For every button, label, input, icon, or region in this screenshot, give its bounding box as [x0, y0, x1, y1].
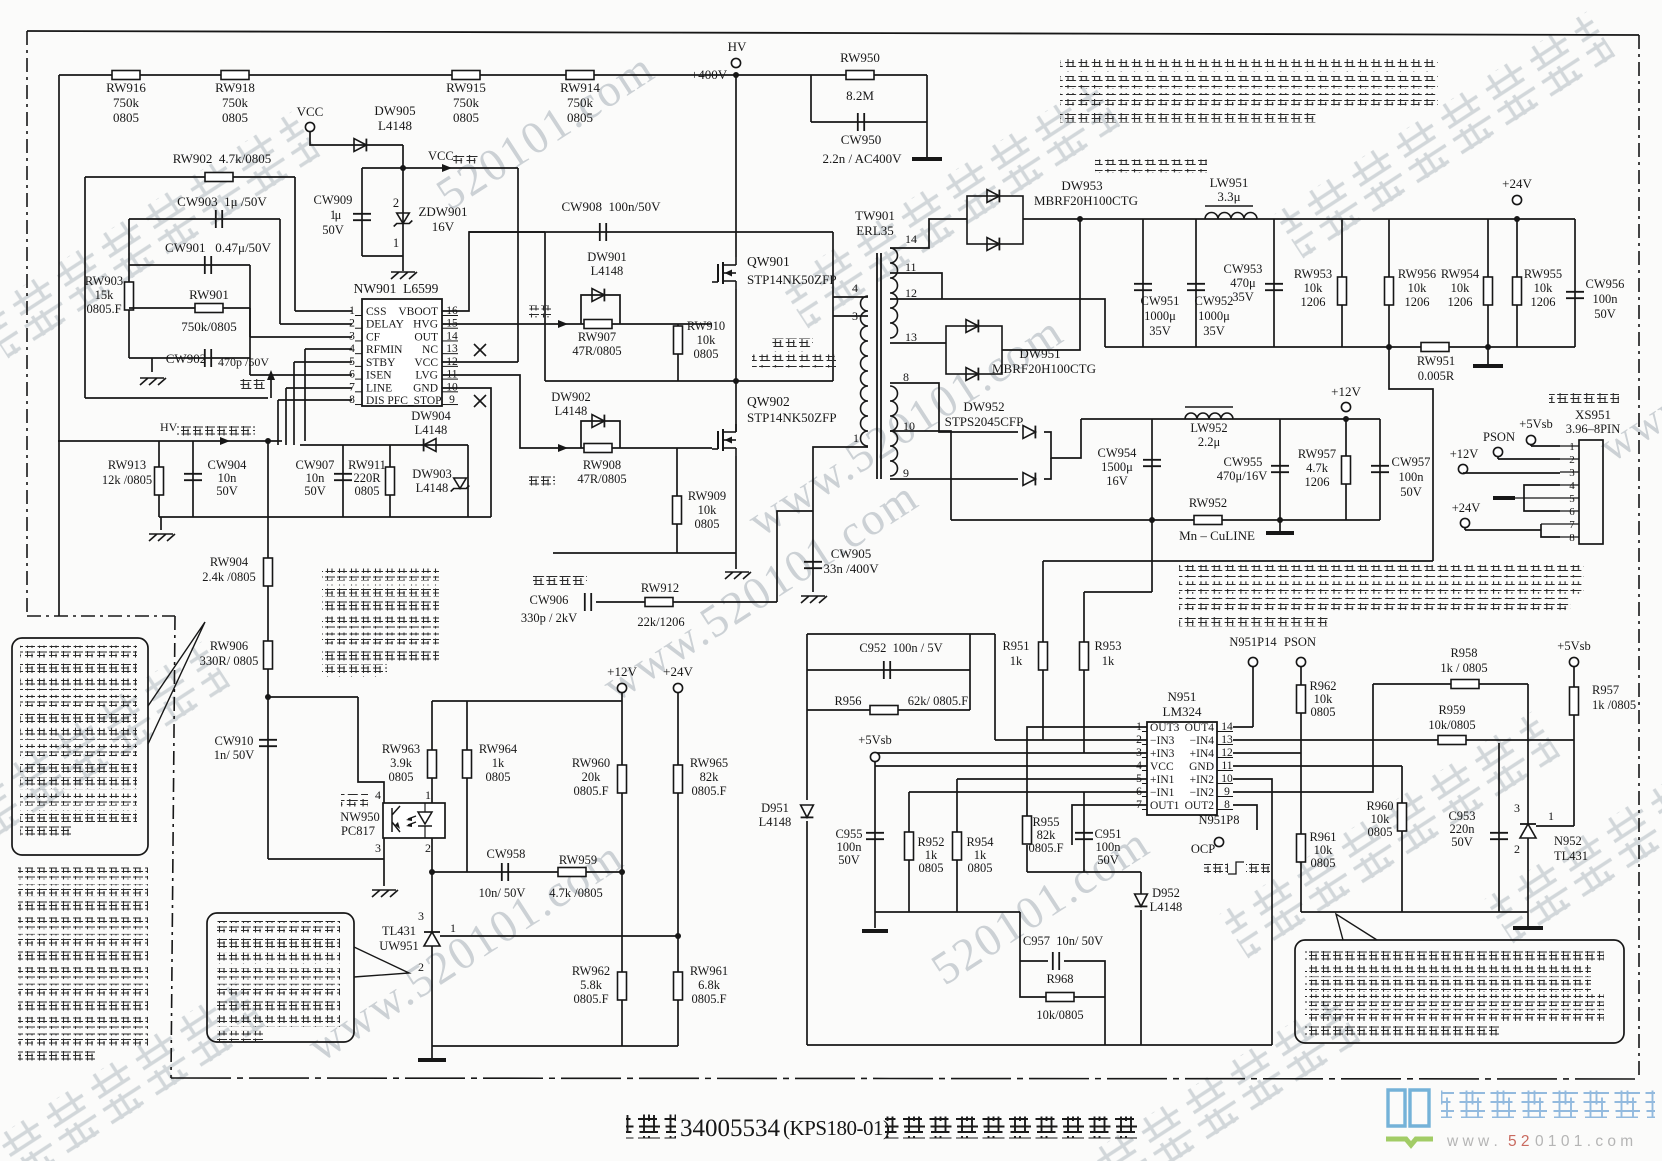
- svg-text:3: 3: [1569, 467, 1575, 479]
- svg-text:RW902 4.7k/0805: RW902 4.7k/0805: [173, 151, 272, 166]
- wire pin6: [250, 374, 352, 376]
- svg-text:9: 9: [903, 466, 909, 480]
- resistor RW952 shunt: [1194, 516, 1222, 525]
- svg-text:7: 7: [1569, 519, 1575, 531]
- diode DW901: [581, 295, 620, 324]
- svg-text:35V: 35V: [1149, 324, 1171, 338]
- primary coil: [861, 296, 869, 446]
- svg-text:3: 3: [418, 909, 424, 923]
- svg-text:RW915: RW915: [446, 80, 486, 95]
- svg-text:10k/0805: 10k/0805: [1428, 718, 1475, 732]
- ground: [725, 572, 751, 579]
- wires pins 4-6: [1524, 485, 1560, 511]
- wire R951/R953: [1042, 561, 1044, 740]
- svg-text:RW904: RW904: [210, 555, 249, 569]
- svg-text:GND: GND: [1189, 761, 1214, 773]
- ground: [418, 1058, 446, 1062]
- pin 8: [1560, 536, 1579, 538]
- ground: [151, 358, 153, 372]
- svg-text:+5Vsb: +5Vsb: [1519, 417, 1552, 431]
- resistor R953: [1080, 642, 1089, 670]
- resistor RW953: [1341, 219, 1343, 347]
- svg-text:DW951: DW951: [1019, 346, 1060, 361]
- resistor RW909: [676, 448, 678, 553]
- svg-text:RW914: RW914: [560, 80, 600, 95]
- wire sense: [1043, 560, 1433, 562]
- svg-text:4: 4: [375, 788, 381, 802]
- border frame: [27, 31, 1639, 35]
- svg-text:+24V: +24V: [1452, 501, 1481, 515]
- svg-text:RW952: RW952: [1189, 496, 1227, 510]
- svg-text:R960: R960: [1366, 799, 1393, 813]
- svg-text:RW963: RW963: [382, 742, 420, 756]
- secondary bottom: [890, 386, 898, 476]
- svg-text:(KPS180-01): (KPS180-01): [783, 1116, 890, 1140]
- wire +12 return rail: [951, 519, 1380, 521]
- svg-text:NW901 L6599: NW901 L6599: [354, 281, 439, 296]
- svg-text:RW909: RW909: [688, 489, 726, 503]
- wire gnd rail: [1105, 346, 1421, 348]
- svg-text:RW918: RW918: [215, 80, 255, 95]
- svg-text:NC: NC: [422, 344, 438, 356]
- svg-text:RW950: RW950: [840, 50, 880, 65]
- svg-text:10k: 10k: [698, 503, 718, 517]
- resistor R961: [1300, 753, 1302, 912]
- svg-text:3: 3: [375, 841, 381, 855]
- svg-text:0805: 0805: [113, 110, 139, 125]
- svg-text:2: 2: [1514, 842, 1520, 856]
- svg-text:R954: R954: [966, 835, 994, 849]
- resistor RW956: [1388, 219, 1390, 347]
- svg-text:750k: 750k: [113, 95, 140, 110]
- node HV: [731, 58, 740, 67]
- svg-text:1k: 1k: [1010, 654, 1023, 668]
- diode DW952: [890, 383, 1018, 432]
- svg-text:0805: 0805: [355, 484, 380, 498]
- diode D952: [1084, 871, 1141, 873]
- svg-text:0805.F: 0805.F: [691, 784, 726, 798]
- svg-text:TL431: TL431: [382, 924, 416, 938]
- svg-text:NW950: NW950: [340, 810, 380, 824]
- note N951: [1179, 565, 1584, 578]
- svg-text:CW956: CW956: [1586, 277, 1625, 291]
- svg-text:5: 5: [1569, 493, 1575, 505]
- wire pin9 R958: [1233, 684, 1373, 792]
- svg-text:RW960: RW960: [572, 756, 610, 770]
- svg-text:CW910: CW910: [215, 734, 254, 748]
- TL431 N952: [1520, 824, 1536, 838]
- wire pin8: [278, 399, 352, 401]
- svg-text:35V: 35V: [1232, 290, 1254, 304]
- svg-text:1k: 1k: [492, 756, 505, 770]
- svg-text:1206: 1206: [1301, 295, 1326, 309]
- svg-text:20k: 20k: [582, 770, 602, 784]
- svg-text:1206: 1206: [1531, 295, 1556, 309]
- svg-text:220n: 220n: [1450, 822, 1476, 836]
- svg-text:5.8k: 5.8k: [580, 978, 603, 992]
- pin 5: [1560, 497, 1579, 499]
- svg-text:RW911: RW911: [348, 458, 386, 472]
- svg-text:R952: R952: [917, 835, 944, 849]
- svg-text:CW957: CW957: [1392, 455, 1431, 469]
- svg-text:2: 2: [393, 196, 399, 210]
- svg-text:RW964: RW964: [479, 742, 518, 756]
- svg-text:10k: 10k: [1314, 843, 1334, 857]
- svg-text:10k: 10k: [1408, 281, 1428, 295]
- svg-text:w w w .: w w w .: [1446, 1133, 1498, 1150]
- wire +12 rail: [1081, 418, 1380, 420]
- svg-text:−IN3: −IN3: [1150, 735, 1175, 747]
- resistor RW950: [846, 71, 874, 80]
- svg-text:35V: 35V: [1203, 324, 1225, 338]
- svg-text:11: 11: [905, 260, 917, 274]
- svg-text:15k: 15k: [95, 288, 115, 302]
- capacitor CW954: [1151, 419, 1153, 520]
- svg-text:CW951: CW951: [1141, 294, 1180, 308]
- wire pin4: [305, 348, 352, 350]
- svg-text:10n: 10n: [306, 471, 326, 485]
- svg-text:0805: 0805: [453, 110, 479, 125]
- svg-text:0805.F: 0805.F: [86, 302, 121, 316]
- svg-text:VCC: VCC: [414, 357, 438, 369]
- svg-text:+5Vsb: +5Vsb: [1557, 639, 1590, 653]
- svg-text:+5Vsb: +5Vsb: [858, 733, 891, 747]
- svg-text:1206: 1206: [1448, 295, 1473, 309]
- svg-text:16V: 16V: [432, 219, 455, 234]
- svg-text:CW902: CW902: [166, 351, 206, 366]
- svg-text:CW952: CW952: [1195, 294, 1234, 308]
- wire pin11: [1233, 765, 1402, 767]
- svg-text:MBRF20H100CTG: MBRF20H100CTG: [992, 361, 1096, 376]
- wire pin11: [890, 273, 942, 299]
- svg-text:1: 1: [450, 921, 456, 935]
- wire drive2: [529, 474, 555, 486]
- wire bottom rail: [807, 1044, 1272, 1046]
- zener DW903: [467, 445, 469, 517]
- svg-text:CW953: CW953: [1224, 262, 1263, 276]
- svg-text:TL431: TL431: [1554, 849, 1588, 863]
- svg-text:DW905: DW905: [374, 103, 415, 118]
- svg-text:TW901: TW901: [855, 208, 895, 223]
- svg-text:6.8k: 6.8k: [698, 978, 721, 992]
- resistor RW912: [645, 598, 673, 607]
- wire: [58, 440, 282, 442]
- svg-text:10n/ 50V: 10n/ 50V: [479, 886, 526, 900]
- svg-text:5 2: 5 2: [1508, 1133, 1530, 1150]
- wire pin1 R955: [1027, 727, 1147, 816]
- svg-text:0805: 0805: [486, 770, 511, 784]
- pin 2: [1560, 458, 1579, 460]
- svg-text:QW901: QW901: [747, 254, 790, 269]
- svg-text:UW951: UW951: [379, 939, 419, 953]
- note top right: [1060, 59, 1438, 72]
- svg-text:RW916: RW916: [106, 80, 146, 95]
- resistor R968: [1046, 993, 1074, 1002]
- svg-text:16V: 16V: [1106, 474, 1128, 488]
- resistor R952: [908, 792, 910, 912]
- svg-text:R951: R951: [1002, 639, 1029, 653]
- svg-text:R959: R959: [1438, 703, 1465, 717]
- svg-text:LW952: LW952: [1190, 421, 1227, 435]
- transistor QW902: [735, 381, 737, 424]
- svg-text:47R/0805: 47R/0805: [577, 472, 626, 486]
- resistor RW959: [558, 868, 586, 877]
- svg-text:1000μ: 1000μ: [1198, 309, 1230, 323]
- wire HV drain: [735, 77, 737, 249]
- svg-text:+IN1: +IN1: [1150, 774, 1175, 786]
- svg-text:10k: 10k: [1451, 281, 1471, 295]
- capacitor CW957: [1379, 419, 1381, 520]
- resistor RW955: [1516, 219, 1518, 347]
- svg-text:OUT1: OUT1: [1150, 800, 1180, 812]
- svg-text:470μ/16V: 470μ/16V: [1217, 469, 1267, 483]
- wire pin2 down: [431, 838, 433, 872]
- svg-text:3.3μ: 3.3μ: [1217, 189, 1240, 204]
- svg-text:10k: 10k: [697, 333, 717, 347]
- svg-text:0805: 0805: [1368, 825, 1393, 839]
- svg-text:RW953: RW953: [1294, 267, 1332, 281]
- svg-text:DW952: DW952: [963, 399, 1004, 414]
- svg-text:R958: R958: [1450, 646, 1477, 660]
- resistor R959: [1438, 736, 1466, 745]
- resistor RW918: [221, 71, 249, 80]
- wire hb left: [544, 232, 546, 381]
- svg-text:R957: R957: [1592, 683, 1619, 697]
- svg-text:22k/1206: 22k/1206: [637, 615, 684, 629]
- ground: [1279, 520, 1281, 531]
- svg-text:100n: 100n: [1096, 840, 1122, 854]
- svg-text:OUT: OUT: [414, 331, 438, 343]
- svg-text:47R/0805: 47R/0805: [572, 344, 621, 358]
- pin 1: [1560, 445, 1579, 447]
- svg-text:2.4k /0805: 2.4k /0805: [202, 570, 255, 584]
- label secondary rectifier: [1095, 160, 1207, 173]
- resistor R960: [1401, 766, 1403, 912]
- svg-text:+IN2: +IN2: [1190, 774, 1215, 786]
- svg-text:RW913: RW913: [108, 458, 146, 472]
- wire pin13 long: [1233, 739, 1574, 741]
- svg-text:HVG: HVG: [413, 319, 438, 331]
- svg-text:OUT2: OUT2: [1185, 800, 1215, 812]
- svg-text:QW902: QW902: [747, 394, 790, 409]
- svg-text:OUT4: OUT4: [1185, 722, 1215, 734]
- svg-text:−IN2: −IN2: [1190, 787, 1215, 799]
- svg-text:1: 1: [1548, 809, 1554, 823]
- svg-text:OUT3: OUT3: [1150, 722, 1180, 734]
- svg-text:RW962: RW962: [572, 964, 610, 978]
- wire ref: [440, 935, 678, 937]
- label half bridge: [771, 339, 813, 352]
- svg-text:12: 12: [905, 286, 917, 300]
- svg-text:CW903 1μ /50V: CW903 1μ /50V: [177, 194, 267, 209]
- svg-text:50V: 50V: [304, 484, 326, 498]
- svg-text:ERL35: ERL35: [856, 223, 894, 238]
- resistor RW910: [677, 324, 679, 381]
- wire pin12 centre tap: [890, 299, 1105, 347]
- svg-text:CW954: CW954: [1098, 446, 1138, 460]
- svg-text:C952 100n / 5V: C952 100n / 5V: [859, 641, 942, 655]
- wire: [294, 177, 296, 311]
- resistor RW913: [158, 441, 160, 517]
- resistor RW951 shunt: [1421, 343, 1449, 352]
- svg-text:+IN4: +IN4: [1190, 748, 1215, 760]
- svg-text:2.2μ: 2.2μ: [1198, 435, 1221, 449]
- resistor RW962: [618, 972, 627, 1000]
- wire bottom: [1301, 911, 1528, 913]
- resistor RW916: [112, 71, 140, 80]
- wire pin14 to DW953: [890, 219, 967, 248]
- svg-text:CF: CF: [366, 331, 380, 343]
- svg-text:R968: R968: [1046, 972, 1073, 986]
- wire gnd rail: [159, 516, 491, 518]
- label output connector: [1549, 393, 1619, 406]
- resistor R956: [807, 709, 970, 711]
- svg-text:C953: C953: [1448, 809, 1475, 823]
- ground: [362, 255, 403, 257]
- svg-text:DW901: DW901: [587, 250, 627, 264]
- wire pin10 gnd: [442, 388, 491, 517]
- svg-text:RW959: RW959: [559, 853, 597, 867]
- resistor RW963: [431, 701, 433, 803]
- svg-text:RW955: RW955: [1524, 267, 1562, 281]
- wire pin5: [957, 778, 1147, 780]
- capacitor CW956: [1574, 219, 1576, 347]
- wire bottom rail: [553, 552, 736, 554]
- pin 6: [1560, 510, 1579, 512]
- pin9 X: [474, 395, 486, 407]
- wire sense down: [1389, 347, 1433, 561]
- capacitor CW909: [361, 168, 363, 256]
- svg-text:1k: 1k: [974, 848, 987, 862]
- svg-text:RW951: RW951: [1417, 354, 1455, 368]
- svg-text:C951: C951: [1094, 827, 1121, 841]
- capacitor CW908: [599, 223, 601, 241]
- pin 7: [1560, 523, 1579, 525]
- svg-text:220R: 220R: [353, 471, 381, 485]
- resistor RW961: [674, 972, 683, 1000]
- svg-text:0805: 0805: [968, 861, 993, 875]
- resistor R957: [1570, 687, 1579, 715]
- svg-text:1: 1: [1569, 441, 1575, 453]
- note main power box: [12, 638, 148, 855]
- svg-text:50V: 50V: [1451, 835, 1473, 849]
- svg-text:VCC: VCC: [297, 104, 324, 119]
- resistor RW906: [264, 641, 273, 669]
- svg-text:750k: 750k: [222, 95, 249, 110]
- capacitor CW955: [1279, 419, 1281, 520]
- svg-text:−IN1: −IN1: [1150, 787, 1175, 799]
- svg-text:1: 1: [425, 788, 431, 802]
- loop C957/R968: [1020, 912, 1046, 997]
- wire hb right: [832, 232, 834, 381]
- capacitor CW951: [1142, 219, 1144, 347]
- svg-text:33n /400V: 33n /400V: [823, 561, 879, 576]
- svg-text:10k: 10k: [1534, 281, 1554, 295]
- svg-text:DELAY: DELAY: [366, 319, 405, 331]
- svg-text:ISEN: ISEN: [366, 370, 392, 382]
- svg-text:N951P8: N951P8: [1199, 813, 1240, 827]
- svg-text:L4148: L4148: [591, 264, 624, 278]
- opto NW950 PC817: [383, 803, 445, 838]
- wire pin3: [250, 336, 352, 338]
- svg-text:LW951: LW951: [1210, 175, 1249, 190]
- svg-text:0 1 0 1 . c o m: 0 1 0 1 . c o m: [1535, 1133, 1633, 1150]
- resistor RW964: [466, 701, 468, 872]
- svg-text:+IN3: +IN3: [1150, 748, 1175, 760]
- wire pin12: [1233, 752, 1301, 754]
- svg-text:L4148: L4148: [415, 423, 448, 437]
- svg-text:R956: R956: [834, 694, 861, 708]
- svg-text:1k /0805: 1k /0805: [1592, 698, 1636, 712]
- connector XS951: [1579, 440, 1603, 544]
- svg-text:CW904: CW904: [208, 458, 248, 472]
- svg-text:R953: R953: [1094, 639, 1121, 653]
- wire to opto: [268, 696, 358, 698]
- svg-text:CW909: CW909: [314, 193, 353, 207]
- wire vcc to pin12: [517, 168, 519, 362]
- svg-text:C955: C955: [835, 827, 862, 841]
- svg-text:DW903: DW903: [412, 467, 452, 481]
- wire pin4: [875, 765, 1147, 767]
- svg-text:CW950: CW950: [841, 132, 881, 147]
- capacitor CW953: [1273, 219, 1275, 347]
- svg-text:STPS2045CFP: STPS2045CFP: [945, 414, 1024, 429]
- svg-text:3.9k: 3.9k: [390, 756, 413, 770]
- wire gnd: [875, 911, 957, 913]
- svg-text:0.005R: 0.005R: [1418, 369, 1455, 383]
- wire pin4: [833, 296, 868, 298]
- wire pin10: [890, 431, 951, 520]
- svg-text:1: 1: [393, 236, 399, 250]
- svg-text:C957 10n/ 50V: C957 10n/ 50V: [1023, 934, 1103, 948]
- capacitor CW952: [1195, 219, 1197, 347]
- svg-text:14: 14: [905, 232, 917, 246]
- svg-text:750k/0805: 750k/0805: [181, 319, 237, 334]
- svg-text:470p /50V: 470p /50V: [218, 355, 269, 369]
- note UW951: [322, 569, 439, 581]
- wire HV to RW950 loop: [736, 74, 927, 76]
- svg-text:OCP: OCP: [1191, 842, 1215, 856]
- svg-text:50V: 50V: [1594, 307, 1616, 321]
- svg-text:50V: 50V: [838, 853, 860, 867]
- wire pin1: [295, 310, 352, 312]
- svg-text:N952: N952: [1554, 834, 1582, 848]
- svg-text:CW955: CW955: [1224, 455, 1263, 469]
- svg-text:1k / 0805: 1k / 0805: [1440, 661, 1487, 675]
- svg-text:CW908 100n/50V: CW908 100n/50V: [562, 199, 662, 214]
- svg-text:0805: 0805: [1311, 705, 1336, 719]
- svg-text:CW907: CW907: [296, 458, 335, 472]
- svg-text:470μ: 470μ: [1230, 276, 1256, 290]
- svg-text:RW961: RW961: [690, 964, 728, 978]
- capacitor CW950: [810, 75, 812, 122]
- svg-text:4.7k: 4.7k: [1306, 461, 1329, 475]
- svg-text:+12V: +12V: [607, 664, 637, 679]
- svg-text:HV: HV: [728, 39, 747, 54]
- pin 3: [1560, 471, 1579, 473]
- label stabilize: [239, 379, 266, 392]
- svg-text:RW912: RW912: [641, 581, 679, 595]
- svg-text:34005534: 34005534: [680, 1115, 781, 1142]
- svg-text:DW953: DW953: [1061, 178, 1102, 193]
- svg-text:Mn – CuLINE: Mn – CuLINE: [1179, 528, 1255, 543]
- inductor LW951: [1205, 213, 1257, 219]
- inductor LW952: [1185, 413, 1233, 419]
- feedback CW906/RW912: [533, 576, 587, 589]
- svg-text:LVG: LVG: [415, 370, 438, 382]
- svg-text:100n: 100n: [1399, 470, 1425, 484]
- wire CW958 row: [432, 871, 622, 873]
